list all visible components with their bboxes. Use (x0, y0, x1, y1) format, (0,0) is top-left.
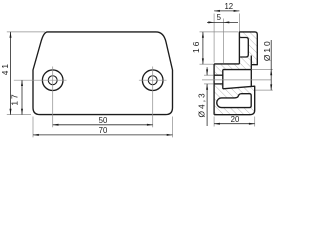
svg-text:12: 12 (224, 2, 233, 11)
svg-text:5: 5 (217, 13, 222, 22)
svg-text:70: 70 (99, 126, 108, 135)
svg-text:Ø10: Ø10 (262, 39, 272, 61)
svg-text:16: 16 (191, 40, 201, 53)
svg-text:17: 17 (10, 92, 20, 105)
svg-text:41: 41 (0, 62, 10, 75)
svg-text:Ø4,3: Ø4,3 (196, 91, 206, 117)
svg-text:20: 20 (231, 115, 240, 124)
svg-text:50: 50 (99, 116, 108, 125)
